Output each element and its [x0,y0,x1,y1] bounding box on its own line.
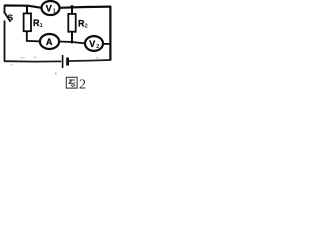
node junction of R2 stub with A-V2 wire [71,41,74,44]
voltmeter V1 [42,1,60,15]
wire: top wire left of V1 [5,6,42,8]
wire: bottom wire right of battery [69,60,111,61]
ammeter A [40,34,59,49]
svg-text:A: A [46,37,53,47]
wire: stub from top wire to R2 [71,7,73,15]
R2 value label [78,18,88,29]
svg-text:2: 2 [85,23,88,29]
R1 value label [33,18,43,29]
battery short plate [66,58,69,66]
node junction of R2 with top wire [70,5,74,9]
wire: stub from top wire to R1 [26,5,28,14]
svg-text:S: S [8,14,14,23]
svg-text:V: V [46,4,52,14]
wire: left wire lower segment (switch to bottom-left corner) [4,21,6,62]
wire: R1 bottom to ammeter A (L-shape) [27,31,40,41]
wire: V2 to right frame [103,43,111,45]
svg-text:2: 2 [96,44,99,50]
wire: A to V2 through junction [59,42,85,44]
scan speckles (noise) [10,57,99,75]
svg-text:1: 1 [40,23,43,29]
caption glyph 图 (drawn, CJK unavailable in Liberation) [66,77,77,88]
background [0,0,116,95]
switch S blade [4,12,11,22]
battery long plate [62,55,64,68]
wire: right wire (top-right corner to bottom-right corner) [109,6,111,61]
wire: stub from R2 bottom to junction [71,32,73,43]
svg-text:1: 1 [53,9,56,15]
resistor R2 [68,14,75,32]
wire: top wire right of V1 [60,7,112,8]
wire: left wire upper segment (corner to switch) [4,5,6,13]
resistor R1 [24,13,31,31]
svg-text:V: V [89,39,95,49]
wire: bottom wire left of battery [4,60,61,62]
voltmeter V2 [85,36,103,51]
svg-text:2: 2 [79,78,86,93]
